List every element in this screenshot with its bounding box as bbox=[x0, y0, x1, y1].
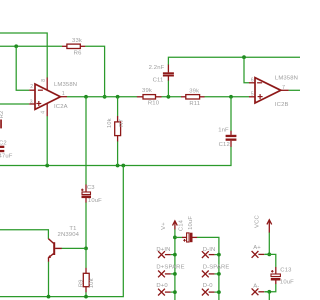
wire IC2B output to right edge bbox=[289, 89, 300, 91]
svg-text:5: 5 bbox=[251, 91, 254, 97]
svg-text:8: 8 bbox=[41, 79, 47, 82]
junction dot ground drop on rail bbox=[121, 164, 125, 168]
wire ground rail bbox=[0, 166, 123, 297]
svg-text:1: 1 bbox=[62, 91, 65, 97]
svg-text:IC2B: IC2B bbox=[275, 102, 289, 108]
svg-text:R11: R11 bbox=[189, 101, 200, 107]
resistor R9 bbox=[78, 248, 95, 296]
junction dot feedback tap bbox=[242, 55, 246, 59]
wire IC2A output to R10 bbox=[67, 96, 137, 98]
resistor R7 bbox=[107, 97, 125, 166]
junction dot R7 on rail bbox=[116, 164, 120, 168]
wire V+ to header column bbox=[174, 229, 176, 300]
svg-text:D-IN: D-IN bbox=[203, 247, 216, 253]
wire R11 to IC2B pin 5 bbox=[205, 96, 250, 98]
svg-text:D-SPARE: D-SPARE bbox=[203, 264, 230, 270]
svg-text:A-: A- bbox=[253, 283, 259, 289]
wire C14 left link bbox=[175, 236, 182, 238]
svg-text:7: 7 bbox=[282, 85, 285, 91]
svg-text:D+IN: D+IN bbox=[156, 247, 170, 253]
svg-text:IC2A: IC2A bbox=[54, 104, 68, 110]
capacitor C12 bbox=[218, 128, 236, 149]
capacitor C3 bbox=[81, 185, 102, 205]
capacitor C13 bbox=[271, 267, 294, 286]
label 39k R10 bbox=[142, 88, 160, 107]
svg-text:2: 2 bbox=[30, 84, 33, 90]
svg-text:A+: A+ bbox=[253, 245, 261, 251]
junction dot D-0 bbox=[217, 290, 221, 294]
svg-text:C14: C14 bbox=[178, 219, 184, 231]
svg-text:6: 6 bbox=[251, 77, 254, 83]
label 39k R11 bbox=[189, 88, 200, 107]
svg-text:R7: R7 bbox=[119, 119, 125, 127]
wire C13 bottom to A- node bbox=[265, 284, 276, 292]
junction dot emitter on ground bbox=[47, 295, 51, 299]
svg-text:10uF: 10uF bbox=[188, 216, 194, 230]
svg-text:C13: C13 bbox=[280, 268, 292, 274]
junction dot feedback/output bbox=[103, 95, 107, 99]
svg-text:3: 3 bbox=[30, 99, 33, 105]
wire collector elbow from edge bbox=[0, 230, 48, 239]
svg-text:R10: R10 bbox=[148, 101, 160, 107]
svg-text:R9: R9 bbox=[78, 279, 84, 287]
wire R6 left net from edge bbox=[0, 45, 62, 47]
svg-text:33k: 33k bbox=[72, 38, 82, 44]
wire IC2A pin 4 to rail bbox=[46, 116, 48, 165]
svg-text:LM358N: LM358N bbox=[54, 82, 77, 88]
resistor R11 bbox=[181, 95, 205, 99]
supply arrow V+ bbox=[161, 221, 177, 230]
junction dot C12 tap bbox=[229, 95, 233, 99]
svg-text:10k: 10k bbox=[89, 278, 95, 288]
pin D-IN bbox=[202, 247, 219, 258]
wire R6 feedback down to output node bbox=[85, 46, 104, 97]
wire V+ feed to IC2A pin 8 bbox=[0, 33, 47, 78]
wire elbow to IC2B pin 6 bbox=[244, 57, 249, 83]
label 33k R6 bbox=[72, 38, 82, 57]
junction dot D-SPARE bbox=[217, 272, 221, 276]
op-amp IC2A LM358N bbox=[29, 78, 77, 117]
junction dot pin4 on rail bbox=[45, 164, 49, 168]
resistor R6 bbox=[62, 44, 85, 48]
junction dot C11 tap bbox=[167, 95, 171, 99]
wire C3 top link bbox=[85, 97, 87, 185]
svg-text:D-0: D-0 bbox=[203, 283, 214, 289]
capacitor C14 bbox=[178, 216, 197, 243]
junction dot D+SPARE bbox=[173, 272, 177, 276]
svg-text:10k: 10k bbox=[107, 118, 113, 128]
junction dot A+ node bbox=[267, 253, 271, 257]
resistor R10 bbox=[137, 95, 162, 99]
svg-text:1nF: 1nF bbox=[218, 128, 229, 134]
wire C3 bottom to base node bbox=[85, 203, 87, 249]
capacitor C2 edge fragment bbox=[0, 140, 13, 159]
wire VCC drop bbox=[268, 233, 270, 255]
wire A+ node to C13 bbox=[265, 254, 276, 267]
wire elbow to IC2A pin 2 bbox=[16, 46, 29, 90]
svg-text:V+: V+ bbox=[161, 222, 167, 230]
wire C11 bottom link bbox=[167, 81, 169, 97]
wire emitter to ground rail bbox=[48, 262, 50, 297]
svg-text:2N3904: 2N3904 bbox=[58, 232, 80, 238]
pin D+IN bbox=[156, 247, 175, 258]
svg-text:C12: C12 bbox=[219, 142, 230, 148]
svg-text:39k: 39k bbox=[189, 88, 199, 94]
wire R10 to R11 bbox=[162, 96, 182, 98]
junction dot C3 tap bbox=[84, 95, 88, 99]
junction dot D+IN bbox=[173, 253, 177, 257]
junction dot node IN- bbox=[14, 44, 18, 48]
svg-text:10uF: 10uF bbox=[280, 280, 294, 286]
svg-text:39k: 39k bbox=[142, 88, 152, 94]
junction dot D+0 bbox=[173, 290, 177, 294]
transistor T1 2N3904 bbox=[48, 226, 80, 262]
svg-text:R6: R6 bbox=[74, 50, 82, 56]
wire A- drop to edge bbox=[268, 292, 270, 300]
wire IC2A pin 3 input bbox=[0, 103, 29, 105]
pin D+0 bbox=[156, 283, 175, 295]
capacitor C11 bbox=[149, 64, 174, 83]
op-amp IC2B LM358N bbox=[249, 75, 298, 108]
svg-text:R2: R2 bbox=[0, 111, 5, 119]
wire base to T1 bbox=[62, 247, 87, 249]
junction dot base node bbox=[84, 247, 88, 251]
svg-text:C3: C3 bbox=[87, 185, 95, 191]
svg-text:2.2nF: 2.2nF bbox=[149, 65, 165, 71]
wire C11 top rail to right edge bbox=[168, 57, 300, 64]
svg-text:10uF: 10uF bbox=[88, 198, 102, 204]
junction dot C14 tap bbox=[173, 236, 177, 240]
pin A+ bbox=[252, 245, 270, 258]
svg-text:D+SPARE: D+SPARE bbox=[156, 264, 184, 270]
svg-text:C11: C11 bbox=[153, 78, 164, 84]
wire C12 bottom to mid rail bbox=[0, 147, 231, 166]
junction dot D-IN bbox=[217, 253, 221, 257]
svg-text:T1: T1 bbox=[69, 226, 76, 232]
svg-text:LM358N: LM358N bbox=[275, 75, 298, 81]
pin D-0 bbox=[202, 283, 219, 295]
wire C12 top link bbox=[230, 97, 232, 131]
svg-text:47uF: 47uF bbox=[0, 153, 13, 159]
pin A- bbox=[252, 283, 270, 295]
pin D+SPARE bbox=[156, 264, 184, 277]
svg-text:4: 4 bbox=[41, 111, 47, 114]
supply arrow VCC bbox=[255, 214, 272, 232]
junction dot R7 tap bbox=[116, 95, 120, 99]
wire C14 to right header column bbox=[197, 237, 219, 300]
pin D-SPARE bbox=[202, 264, 230, 277]
svg-text:D+0: D+0 bbox=[156, 283, 168, 289]
svg-text:C2: C2 bbox=[0, 140, 7, 146]
junction dot A- node bbox=[267, 290, 271, 294]
junction dot R9 on ground bbox=[84, 295, 88, 299]
svg-text:VCC: VCC bbox=[255, 214, 261, 227]
resistor R2 edge fragment bbox=[0, 111, 5, 129]
